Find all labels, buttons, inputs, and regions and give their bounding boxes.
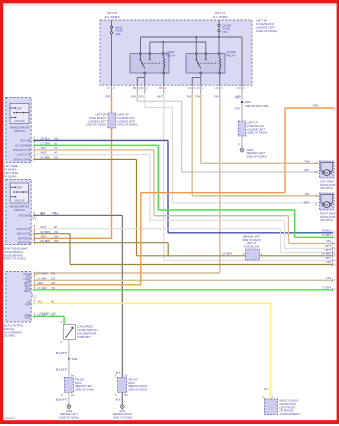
svg-text:C4: C4 — [188, 86, 192, 90]
svg-text:D1: D1 — [237, 86, 241, 90]
svg-text:ALL TIMES: ALL TIMES — [104, 15, 119, 19]
svg-text:B4: B4 — [133, 86, 137, 90]
connector row under fuse block — [111, 85, 113, 93]
svg-text:TAN: TAN — [214, 94, 219, 98]
svg-text:(ON HDLP): (ON HDLP) — [320, 218, 333, 222]
svg-text:SIDE OF DASH): SIDE OF DASH) — [59, 415, 78, 419]
connector inline on GRY ground wire — [238, 121, 246, 136]
svg-text:SERIAL DATA: SERIAL DATA — [13, 157, 30, 161]
wire TAN lock from S3 to right edge — [33, 279, 332, 281]
wire ORG battery into S3 — [33, 284, 141, 286]
relay K1 coil — [163, 55, 165, 73]
svg-text:UNLOCK: UNLOCK — [14, 120, 25, 123]
svg-text:25A: 25A — [223, 30, 228, 34]
wire BLK ground from S2 — [33, 214, 122, 216]
svg-text:TAN: TAN — [326, 277, 331, 280]
svg-text:FUSE BLOCK: FUSE BLOCK — [247, 124, 264, 128]
module box S3 — [6, 272, 31, 323]
svg-text:S206: S206 — [245, 100, 252, 104]
svg-text:TAN: TAN — [195, 94, 200, 98]
wire TAN relay K2 coil return to switch box 3 — [219, 93, 221, 273]
svg-text:(RAD COOLING: (RAD COOLING — [280, 399, 299, 403]
wire DK BLU from S1 to right connector — [33, 139, 168, 141]
svg-text:TAN: TAN — [186, 94, 191, 98]
svg-text:G: G — [334, 236, 336, 239]
wire TAN relay K2 to motor M1 — [200, 93, 202, 163]
svg-text:FUSE BLOCK: FUSE BLOCK — [118, 116, 135, 120]
relay K2 dashed link — [197, 62, 218, 64]
svg-text:WHT: WHT — [325, 257, 331, 260]
switch box S1 headlamp switch — [6, 98, 31, 163]
svg-text:DATA: DATA — [24, 290, 30, 293]
wire GRY to ground G200 — [241, 93, 243, 147]
relay K1 bottom pins — [144, 72, 146, 74]
svg-text:RELAY: RELAY — [167, 54, 176, 58]
svg-text:BLK/WHT: BLK/WHT — [56, 399, 68, 402]
svg-text:ORG: ORG — [313, 103, 319, 107]
switch S1 detail box — [10, 104, 29, 124]
underhood fuse block box — [100, 20, 252, 85]
svg-text:OFF: OFF — [17, 107, 22, 110]
switch S2 stub pin C2 — [31, 217, 33, 219]
wire LT GRN serial from S3 to right edge — [33, 289, 332, 291]
svg-text:GRY: GRY — [138, 94, 144, 98]
svg-text:TAN: TAN — [326, 240, 331, 243]
svg-text:250: 250 — [51, 272, 56, 275]
svg-text:SER DATA: SER DATA — [17, 241, 30, 245]
relay K2 — [186, 54, 225, 74]
svg-text:S339: S339 — [72, 357, 79, 361]
svg-text:GRAY 2F: GRAY 2F — [118, 113, 130, 117]
svg-text:SWITCH: SWITCH — [14, 208, 25, 212]
wire ORG feed continues to switch box 2 — [111, 128, 113, 239]
svg-text:SIDE OF DASH): SIDE OF DASH) — [118, 123, 138, 127]
motor M2 — [320, 193, 335, 210]
wire TAN unlock from S3 drawn above — [33, 273, 42, 275]
svg-text:TAN: TAN — [326, 261, 331, 264]
svg-text:SIDE OF DASH): SIDE OF DASH) — [75, 387, 94, 391]
gray separator line under top border — [3, 4, 336, 6]
motor M1 — [320, 161, 335, 178]
svg-text:A7: A7 — [107, 86, 111, 90]
wire TAN from S1 — [33, 149, 154, 151]
relay K2 output jog — [200, 74, 202, 78]
bus wire 2 — [150, 41, 206, 43]
svg-text:(UNDER LEFT: (UNDER LEFT — [247, 127, 265, 131]
svg-text:30A: 30A — [116, 32, 121, 36]
wire TAN relay K2 to motor M2 — [191, 93, 193, 196]
svg-text:UNLK SYG: UNLK SYG — [17, 232, 30, 236]
connector box bottom right — [264, 399, 277, 415]
svg-text:OF DASH): OF DASH) — [4, 167, 17, 171]
svg-text:KEY ON: KEY ON — [20, 138, 30, 142]
svg-text:COLUMN): COLUMN) — [3, 334, 16, 338]
svg-text:DK BRN: DK BRN — [322, 253, 332, 256]
splice S339 — [68, 358, 70, 360]
svg-text:ALL TIMES: ALL TIMES — [212, 15, 227, 19]
svg-text:YEL: YEL — [264, 388, 269, 391]
fuse F1 MAXI FUSE 30A — [110, 26, 112, 28]
svg-text:C6: C6 — [215, 86, 219, 90]
svg-text:UNLOCK: UNLOCK — [14, 200, 25, 203]
wire ORG from right edge down-left — [285, 107, 333, 109]
right edge connector pins — [332, 231, 334, 234]
wire GRY relay K1 to motor M1 — [136, 93, 138, 101]
svg-text:340: 340 — [54, 234, 59, 238]
module S3 stub pin C2 — [31, 294, 33, 297]
svg-text:BATTERY: BATTERY — [18, 236, 30, 240]
svg-text:FUSE BLOCK: FUSE BLOCK — [89, 116, 106, 120]
connector C2 inline on ORG wire — [108, 113, 116, 128]
svg-text:(ON STEERING: (ON STEERING — [3, 330, 22, 334]
svg-text:LEFT FRONT: LEFT FRONT — [280, 405, 296, 409]
svg-text:SIDE OF DASH): SIDE OF DASH) — [113, 415, 132, 419]
fuse F2 FAN FUSE 25A — [218, 24, 220, 26]
svg-text:BLK: BLK — [116, 399, 121, 402]
svg-text:KNOB (BEHIND: KNOB (BEHIND — [4, 253, 23, 257]
relay K1 switch arm — [139, 55, 141, 60]
svg-text:GRY: GRY — [235, 97, 241, 100]
relay K1 — [130, 54, 169, 74]
svg-text:(UNDER LEFT: (UNDER LEFT — [88, 119, 106, 123]
switch S4 underhood lamp switch — [63, 325, 75, 340]
wire WHT relay K1 coil return — [163, 93, 165, 261]
wire BLK from S4 to ground — [68, 340, 70, 359]
bus wire 1 — [141, 36, 243, 38]
ground G200 — [240, 148, 244, 152]
svg-text:SPD: SPD — [25, 304, 30, 307]
svg-text:BLK: BLK — [116, 372, 121, 375]
relay K2 coil — [219, 55, 221, 73]
wire feed maxi fuse — [111, 20, 113, 85]
svg-text:CLOSE SWITCH: CLOSE SWITCH — [77, 328, 98, 332]
svg-text:SPD: SPD — [25, 317, 30, 320]
svg-text:BLK/WHT: BLK/WHT — [56, 369, 68, 372]
svg-text:MODULE: MODULE — [3, 327, 15, 331]
svg-text:wma2261: wma2261 — [4, 416, 16, 420]
svg-text:DK BRN: DK BRN — [223, 253, 233, 256]
svg-text:ORG: ORG — [105, 94, 111, 98]
svg-text:SIDE OF DASH): SIDE OF DASH) — [86, 123, 106, 127]
svg-text:SIDE OF DASH): SIDE OF DASH) — [256, 29, 277, 33]
svg-text:GROUND: GROUND — [18, 213, 30, 217]
svg-text:LOCK SYG: LOCK SYG — [17, 153, 30, 157]
ground G201 — [121, 405, 125, 409]
svg-text:WHT: WHT — [325, 245, 331, 248]
svg-text:SIDE OF DASH): SIDE OF DASH) — [128, 387, 147, 391]
wire DK BRN unlock from S2 — [33, 233, 70, 235]
svg-text:OF DASH): OF DASH) — [4, 174, 17, 178]
relay K2 bottom pins — [200, 72, 202, 74]
svg-text:GRY: GRY — [304, 168, 310, 172]
svg-text:H: H — [334, 263, 336, 266]
svg-text:DOOR MANUAL: DOOR MANUAL — [4, 250, 25, 254]
relay K1 output jog — [144, 74, 146, 78]
svg-text:HDLP CONTROL: HDLP CONTROL — [3, 324, 25, 328]
svg-text:(ON HDLP): (ON HDLP) — [320, 186, 333, 190]
svg-text:GRY: GRY — [235, 108, 241, 111]
svg-text:GRY: GRY — [131, 94, 137, 98]
svg-text:(ON RADIATOR: (ON RADIATOR — [77, 332, 96, 336]
svg-text:C2: C2 — [196, 86, 200, 90]
relay K1 coil lead — [163, 74, 165, 85]
svg-text:BLK: BLK — [41, 212, 46, 215]
svg-text:WHT: WHT — [157, 94, 163, 98]
wire DK BRN from S1 — [33, 158, 136, 160]
svg-text:TAN: TAN — [305, 192, 310, 196]
svg-text:LEFT I/P: LEFT I/P — [247, 121, 258, 125]
svg-text:D: D — [61, 394, 63, 397]
svg-text:B2: B2 — [140, 86, 144, 90]
svg-text:G200: G200 — [247, 148, 254, 152]
svg-text:HEADLAMP DR: HEADLAMP DR — [10, 126, 29, 130]
svg-text:(BEHIND LEFT: (BEHIND LEFT — [247, 151, 266, 155]
svg-text:(BELOW MINI FUSE): (BELOW MINI FUSE) — [246, 105, 269, 108]
svg-text:A/C SIGNAL: A/C SIGNAL — [15, 143, 30, 147]
ground G103 — [67, 405, 71, 409]
svg-text:LEFT I/P: LEFT I/P — [95, 113, 106, 117]
relay K1 dashed link — [141, 62, 162, 64]
wire ORG main feed — [111, 93, 113, 113]
svg-text:(LEFT SIDE: (LEFT SIDE — [4, 164, 19, 168]
wire WHT from S2 — [33, 228, 280, 230]
svg-text:SIDE OF DASH): SIDE OF DASH) — [247, 155, 267, 159]
wire WHT from S1 — [33, 154, 150, 156]
svg-text:COMPARTMENT): COMPARTMENT) — [280, 412, 301, 416]
svg-text:LOCK SYG: LOCK SYG — [17, 227, 30, 231]
switch box S2 — [6, 180, 31, 245]
svg-text:SWITCH: SWITCH — [14, 129, 25, 133]
svg-text:RELAY: RELAY — [227, 54, 236, 58]
svg-text:WHT: WHT — [304, 201, 310, 205]
svg-text:RIGHT HEADLAMP: RIGHT HEADLAMP — [4, 247, 28, 251]
svg-text:RIGHT OF DASH): RIGHT OF DASH) — [4, 257, 26, 261]
svg-text:(UNDER LEFT: (UNDER LEFT — [118, 119, 136, 123]
wire LT GRN from S1 — [33, 144, 158, 146]
svg-text:DK BLU: DK BLU — [322, 230, 331, 233]
svg-text:OFF: OFF — [17, 187, 22, 190]
svg-text:BLK/WHT: BLK/WHT — [56, 352, 68, 355]
wire LT GRN low speed from S3 to fan switch — [33, 315, 64, 317]
svg-text:FUSE BLOCK: FUSE BLOCK — [244, 245, 260, 248]
svg-text:(LEFT SIDE: (LEFT SIDE — [4, 171, 19, 175]
svg-text:150: 150 — [52, 212, 57, 215]
relay K2 switch arm — [195, 55, 197, 60]
wire DK BRN serial from S2 — [33, 242, 168, 244]
svg-text:LT GRN: LT GRN — [322, 234, 331, 237]
svg-text:ORG: ORG — [41, 234, 47, 238]
svg-text:HEADLAMP DR: HEADLAMP DR — [10, 205, 29, 209]
svg-text:B6: B6 — [159, 86, 163, 90]
wire YEL from S3 — [33, 302, 270, 304]
relay K2 coil lead — [219, 74, 221, 85]
svg-text:LT GRN: LT GRN — [41, 313, 50, 316]
svg-text:LOW SPEED: LOW SPEED — [77, 325, 93, 329]
wire WHT relay K1 to motor M2 — [144, 93, 146, 108]
svg-text:SUPPORT): SUPPORT) — [77, 335, 91, 339]
svg-text:D: D — [334, 247, 336, 250]
svg-text:LT GRN: LT GRN — [322, 287, 331, 290]
svg-text:UNLOCK SYG: UNLOCK SYG — [13, 148, 30, 152]
svg-text:TAN: TAN — [305, 159, 310, 163]
switch S2 detail box — [10, 183, 28, 203]
svg-text:FAN MOTOR): FAN MOTOR) — [280, 402, 296, 406]
svg-text:C: C — [61, 375, 63, 378]
wire feed cooling fan fuse — [218, 20, 220, 54]
svg-text:SIDE OF DASH): SIDE OF DASH) — [247, 131, 267, 135]
svg-text:OF ENGINE: OF ENGINE — [280, 409, 295, 413]
